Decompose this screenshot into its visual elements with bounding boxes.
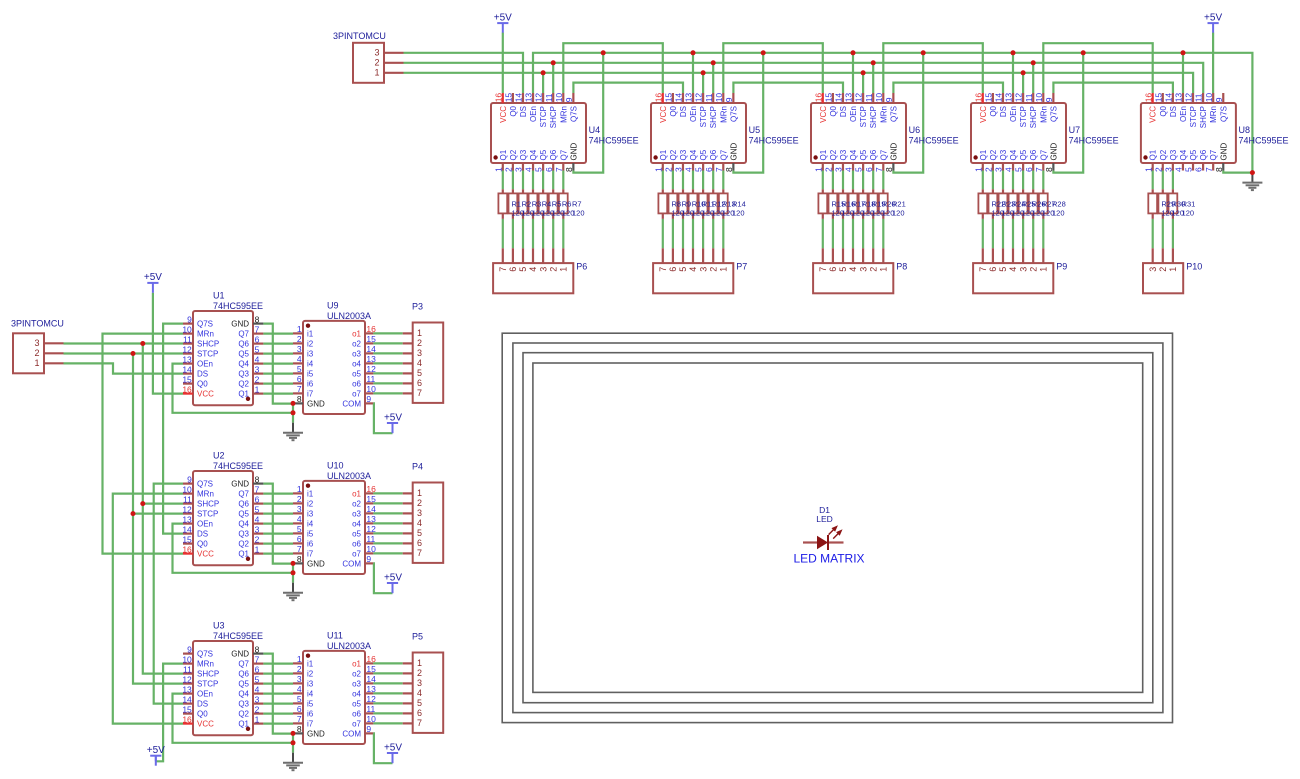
svg-text:3PINTOMCU: 3PINTOMCU xyxy=(333,31,386,41)
wire U9 COM to +5V xyxy=(373,403,392,433)
svg-text:R2: R2 xyxy=(522,199,532,208)
connector P6 xyxy=(493,262,587,294)
svg-text:3: 3 xyxy=(1148,267,1158,272)
wire Q7S daisy bridges (Q7S to next DS) xyxy=(573,83,1173,93)
ground (top right) xyxy=(1242,173,1262,191)
junction dots top section xyxy=(541,50,1255,175)
svg-text:U5: U5 xyxy=(749,125,761,135)
wire +5V to U4 pin16 xyxy=(502,33,504,93)
svg-text:74HC595EE: 74HC595EE xyxy=(1069,136,1119,146)
svg-text:+5V: +5V xyxy=(384,742,402,753)
connector 3PINTOMCU (left) xyxy=(11,319,64,374)
svg-text:+5V: +5V xyxy=(144,272,162,283)
wire gnd stub below U11 xyxy=(292,743,294,753)
power +5V symbol (U10 COM) xyxy=(384,572,402,593)
wire +5V chain bridges (MRn to next VCC) xyxy=(563,43,1152,93)
resistors R22-R28 under U7 xyxy=(978,171,1065,264)
wire U2 Q outputs to U10 inputs xyxy=(263,484,293,564)
svg-text:R6: R6 xyxy=(562,199,572,208)
resistors R29-R31 under U8 xyxy=(1148,171,1195,264)
wire U1 Q7S to U2 DS xyxy=(163,324,183,534)
resistors R15-R21 under U6 xyxy=(818,171,905,264)
darlington array U9 ULN2003A xyxy=(293,301,376,415)
svg-text:+5V: +5V xyxy=(1204,12,1222,23)
shift register U2 74HC595EE xyxy=(182,451,263,566)
svg-text:120: 120 xyxy=(1052,209,1065,218)
power +5V symbol (bottom left) xyxy=(147,745,165,766)
shift register U6 74HC595EE xyxy=(811,93,959,172)
svg-text:U4: U4 xyxy=(589,125,601,135)
svg-text:1: 1 xyxy=(1168,267,1178,272)
wire U10 GND column xyxy=(292,563,294,572)
svg-text:P8: P8 xyxy=(896,262,907,272)
power +5V symbol above U1 xyxy=(144,272,162,293)
svg-text:74HC595EE: 74HC595EE xyxy=(213,631,263,641)
LED D1 xyxy=(793,505,864,566)
wire U11 outputs to P5 xyxy=(373,663,402,723)
resistors R8-R14 under U5 xyxy=(658,171,745,264)
wire GND bus (OEn pins + pin8 bypasses + right ground) xyxy=(533,53,1252,173)
svg-text:ULN2003A: ULN2003A xyxy=(327,311,371,321)
ground (below U9) xyxy=(283,423,303,441)
ground (below U11) xyxy=(283,753,303,771)
darlington array U10 ULN2003A xyxy=(293,461,376,575)
svg-text:U2: U2 xyxy=(213,451,225,461)
wire U3 OEn to ground xyxy=(173,694,294,743)
svg-text:R5: R5 xyxy=(552,199,562,208)
connector P3 xyxy=(403,302,444,403)
LED matrix frame (nested rectangles) xyxy=(502,333,1172,722)
shift register U4 74HC595EE xyxy=(491,93,639,172)
power +5V symbol (top right, feeds U8 MRn) xyxy=(1204,12,1222,33)
svg-text:120: 120 xyxy=(572,209,585,218)
svg-text:U3: U3 xyxy=(213,621,225,631)
shift register U7 74HC595EE xyxy=(971,93,1119,172)
power +5V symbol (U11 COM) xyxy=(384,742,402,763)
shift register U1 74HC595EE xyxy=(182,291,263,406)
connector P8 xyxy=(813,262,907,294)
svg-text:P4: P4 xyxy=(412,462,423,472)
power +5V symbol (top, feeds U4 VCC) xyxy=(494,12,512,33)
svg-text:120: 120 xyxy=(732,209,745,218)
wire U2 MRn to U3 VCC xyxy=(113,494,183,724)
wire +5V to U8 MRn xyxy=(1212,33,1214,93)
svg-text:+5V: +5V xyxy=(494,12,512,23)
svg-text:74HC595EE: 74HC595EE xyxy=(213,301,263,311)
svg-text:74HC595EE: 74HC595EE xyxy=(749,136,799,146)
shift register U5 74HC595EE xyxy=(651,93,799,172)
svg-text:P7: P7 xyxy=(736,262,747,272)
svg-text:P5: P5 xyxy=(412,632,423,642)
svg-text:U8: U8 xyxy=(1239,125,1251,135)
svg-text:R1: R1 xyxy=(512,199,522,208)
svg-text:R3: R3 xyxy=(532,199,542,208)
svg-text:R4: R4 xyxy=(542,199,552,208)
svg-text:R14: R14 xyxy=(732,199,746,208)
wire U3 MRn to +5V xyxy=(156,664,183,762)
wire SHCP net (MCU pin3, U1/U2/U3 pin11) xyxy=(64,344,184,674)
svg-text:120: 120 xyxy=(1182,209,1195,218)
wire U9 outputs to P3 xyxy=(373,333,402,393)
connector P4 xyxy=(403,462,444,563)
svg-text:LED MATRIX: LED MATRIX xyxy=(793,552,864,566)
wire +5V to U1 VCC xyxy=(153,293,183,394)
svg-text:ULN2003A: ULN2003A xyxy=(327,471,371,481)
wire STCP bus xyxy=(404,73,1194,93)
svg-text:+5V: +5V xyxy=(384,412,402,423)
wire STCP net (MCU pin2, U1/U2/U3 pin12) xyxy=(64,354,184,684)
svg-text:74HC595EE: 74HC595EE xyxy=(909,136,959,146)
wire U1 Q outputs to U9 inputs xyxy=(263,324,293,404)
wire U1 MRn to U2 VCC xyxy=(103,334,184,554)
svg-text:R21: R21 xyxy=(892,199,906,208)
ground (below U10) xyxy=(283,583,303,601)
svg-text:R9: R9 xyxy=(682,199,692,208)
wire U10 outputs to P4 xyxy=(373,493,402,553)
svg-text:U7: U7 xyxy=(1069,125,1081,135)
svg-text:P9: P9 xyxy=(1056,262,1067,272)
svg-text:U9: U9 xyxy=(327,301,339,311)
wire U11 COM to +5V xyxy=(373,733,392,763)
shift register U3 74HC595EE xyxy=(182,621,263,736)
wire U11 GND column xyxy=(292,733,294,742)
svg-text:R31: R31 xyxy=(1182,199,1196,208)
darlington array U11 ULN2003A xyxy=(293,631,376,745)
wire U1 OEn to ground xyxy=(173,364,294,413)
wire SHCP bus xyxy=(404,63,1204,93)
wire U3 Q outputs to U11 inputs xyxy=(263,654,293,734)
svg-text:+5V: +5V xyxy=(384,572,402,583)
svg-text:2: 2 xyxy=(1158,267,1168,272)
wire U9 GND column xyxy=(292,403,294,412)
svg-text:3PINTOMCU: 3PINTOMCU xyxy=(11,319,64,329)
connector P10 (3 pin) xyxy=(1143,262,1202,294)
wire gnd stub below U10 xyxy=(292,573,294,583)
svg-text:74HC595EE: 74HC595EE xyxy=(213,461,263,471)
junction dots left section xyxy=(131,341,296,745)
svg-text:LED: LED xyxy=(816,514,833,524)
svg-text:74HC595EE: 74HC595EE xyxy=(589,136,639,146)
wire U2 Q7S to U3 DS xyxy=(154,484,183,704)
connector 3PINTOMCU (top) xyxy=(333,31,404,83)
svg-text:R7: R7 xyxy=(572,199,582,208)
svg-text:U6: U6 xyxy=(909,125,921,135)
connector P5 xyxy=(403,632,444,733)
wire DS bus (MCU pin3 to U4 DS) xyxy=(404,53,524,93)
connector P7 xyxy=(653,262,747,294)
svg-text:P10: P10 xyxy=(1186,262,1202,272)
svg-text:+5V: +5V xyxy=(147,745,165,756)
wire gnd stub below U9 xyxy=(292,413,294,423)
wire U2 OEn to ground xyxy=(173,524,294,573)
svg-text:120: 120 xyxy=(892,209,905,218)
svg-text:U11: U11 xyxy=(327,631,343,641)
svg-text:U1: U1 xyxy=(213,291,225,301)
resistors R1-R7 (120R) under U4 xyxy=(498,171,584,264)
svg-text:P3: P3 xyxy=(412,302,423,312)
wire U10 COM to +5V xyxy=(373,563,392,593)
svg-text:R8: R8 xyxy=(672,199,682,208)
svg-text:74HC595EE: 74HC595EE xyxy=(1239,136,1289,146)
svg-text:ULN2003A: ULN2003A xyxy=(327,641,371,651)
wire DS net (MCU pin1 to U1 DS) xyxy=(64,363,184,373)
shift register U8 74HC595EE xyxy=(1141,93,1289,172)
svg-text:U10: U10 xyxy=(327,461,344,471)
svg-text:P6: P6 xyxy=(576,262,587,272)
power +5V symbol (U9 COM) xyxy=(384,412,402,433)
connector P9 xyxy=(973,262,1067,294)
svg-text:R28: R28 xyxy=(1052,199,1066,208)
